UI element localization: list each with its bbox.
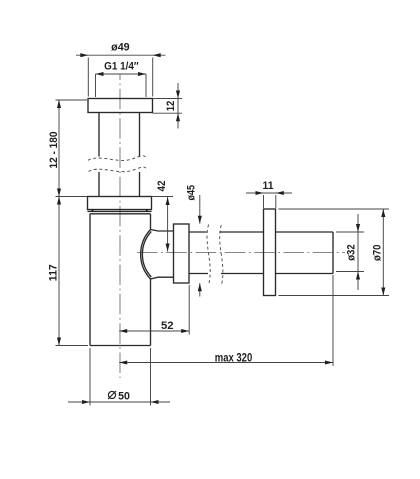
dim 42 line xyxy=(167,197,169,252)
dim G1 arrow left xyxy=(96,72,104,76)
dim G1 1/4 line xyxy=(96,73,147,75)
dim ø49 arrow left xyxy=(80,53,88,57)
dim max320 line xyxy=(119,362,333,364)
dim ø49 ext right xyxy=(152,58,154,97)
dim 50 diameter symbol xyxy=(108,391,115,398)
svg-text:ø70: ø70 xyxy=(371,245,383,261)
svg-text:G1 1/4″: G1 1/4″ xyxy=(104,61,139,73)
dim ø32 arrow bottom xyxy=(356,272,360,280)
tube upper wall right xyxy=(139,112,141,157)
dim ø32 arrow top xyxy=(356,224,360,232)
pipe break wavy line 2 xyxy=(220,225,223,284)
dim 52 arrow left xyxy=(119,329,127,333)
pipe break wavy line 1 xyxy=(207,225,210,284)
dim max320 arrow left xyxy=(119,360,127,364)
body top edge xyxy=(90,213,151,215)
dim 52 ext right xyxy=(188,285,190,335)
dim 11 arrow right xyxy=(276,191,284,195)
pipe bottom segment 1 xyxy=(189,273,208,275)
dim 11 arrow left xyxy=(256,191,264,195)
pipe bottom segment 2 xyxy=(221,273,264,275)
dim ø45 arrow top xyxy=(198,216,202,224)
dim ø70 arrow top xyxy=(381,209,385,217)
slip nut xyxy=(88,197,152,210)
dim 12-180 arrow top xyxy=(57,100,61,108)
dim ø49 arrow right xyxy=(153,53,161,57)
pipe top segment 3 xyxy=(276,231,334,233)
svg-text:12 - 180: 12 - 180 xyxy=(48,132,60,169)
dim 11 ext right xyxy=(275,195,277,208)
dim 50 ext left xyxy=(89,348,91,406)
dim 52 line xyxy=(119,330,189,332)
dim 50 ext right xyxy=(150,348,152,406)
svg-text:ø49: ø49 xyxy=(111,42,130,54)
body right wall upper xyxy=(150,214,152,230)
dim ø70 line xyxy=(382,209,384,296)
dim 50 arrow right xyxy=(151,400,159,404)
dim 12 ext top xyxy=(153,98,183,100)
dim 12-180 ext top xyxy=(56,99,88,101)
svg-text:ø32: ø32 xyxy=(346,244,358,260)
outlet nut xyxy=(174,224,190,283)
wall flange xyxy=(264,209,276,296)
dim 11 line xyxy=(246,192,292,194)
dim 117 ext bottom xyxy=(56,345,89,347)
tube break lower wavy line xyxy=(89,167,148,172)
dim 117 arrow bottom xyxy=(57,338,61,346)
body left wall xyxy=(89,214,91,346)
dim 117 arrow top xyxy=(57,197,61,205)
vertical centerline body axis xyxy=(119,74,121,378)
dim ø45 line top xyxy=(199,195,201,224)
elbow outer arc xyxy=(141,230,151,280)
dim 12 arrow bottom xyxy=(176,113,180,121)
dim ø49 line xyxy=(76,54,166,56)
svg-text:117: 117 xyxy=(47,264,59,281)
dim ø32 ext bottom xyxy=(336,271,364,273)
pipe bottom segment 3 xyxy=(276,273,334,275)
svg-text:max 320: max 320 xyxy=(215,350,253,364)
svg-text:50: 50 xyxy=(118,390,130,402)
outlet stub bottom xyxy=(151,277,174,279)
dim 12 ext bottom xyxy=(153,112,183,114)
body right wall lower xyxy=(150,279,152,346)
dim G1 ext left xyxy=(95,74,97,97)
dim 42 ext top xyxy=(152,196,174,198)
dim 42 arrow top xyxy=(166,197,170,205)
dim ø45 arrow bottom xyxy=(198,283,202,291)
svg-text:ø45: ø45 xyxy=(186,185,198,201)
dim 12 line xyxy=(177,83,179,129)
svg-text:11: 11 xyxy=(263,180,274,192)
pipe top segment 2 xyxy=(220,231,264,233)
dim ø70 ext bottom xyxy=(279,295,390,297)
tube lower wall right xyxy=(139,172,141,197)
dim ø49 ext left xyxy=(87,58,89,97)
dim ø32 ext top xyxy=(336,231,364,233)
svg-text:42: 42 xyxy=(156,181,168,192)
dim 12-180 arrow bottom xyxy=(57,189,61,197)
top flange xyxy=(88,99,153,113)
slip nut bottom rim xyxy=(88,210,152,212)
dim ø70 ext top xyxy=(279,208,390,210)
svg-text:52: 52 xyxy=(161,320,174,332)
outlet stub top xyxy=(151,230,174,232)
dim 11 ext left xyxy=(263,195,265,208)
dim ø32 line xyxy=(357,214,359,290)
dim max320 arrow right xyxy=(325,360,333,364)
dim 52 arrow right xyxy=(181,329,189,333)
tube break upper wavy line xyxy=(88,156,147,161)
svg-text:12: 12 xyxy=(165,101,177,112)
dim ø45 line bottom xyxy=(199,283,201,296)
dim max320 ext right xyxy=(332,275,334,366)
dim 42 arrow bottom xyxy=(166,244,170,252)
dim G1 arrow right xyxy=(138,72,146,76)
dim ø70 arrow bottom xyxy=(381,288,385,296)
tube upper wall left xyxy=(98,112,100,157)
pipe top segment 1 xyxy=(189,231,207,233)
dim 50 line xyxy=(68,401,170,403)
body bottom edge xyxy=(90,345,151,347)
elbow inner arc xyxy=(142,232,151,278)
dim 117 line xyxy=(58,197,60,346)
dim 12-180 line xyxy=(58,100,60,197)
horizontal centerline outlet axis xyxy=(137,252,345,254)
dim G1 ext right xyxy=(145,74,147,97)
dim 117 ext mid xyxy=(56,196,88,198)
dim 50 arrow left xyxy=(82,400,90,404)
tube lower wall left xyxy=(98,172,100,197)
pipe end cap xyxy=(332,232,334,274)
dim 12 arrow top xyxy=(176,91,180,99)
